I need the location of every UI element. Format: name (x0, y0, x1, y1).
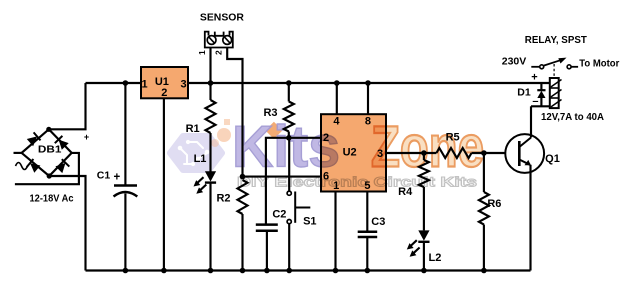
capacitor C1 (114, 83, 138, 271)
LED L2 (407, 230, 430, 270)
LED L1 (194, 171, 217, 270)
svg-text:4: 4 (333, 116, 340, 128)
wire bridge positive output to top rail (49, 83, 86, 129)
wire U2 pin 8 to rail (367, 83, 369, 114)
wire coil bottom to Q1 collector (531, 105, 550, 107)
label - (relay coil) (532, 96, 538, 108)
wire U2 pin 3 output to R5 (386, 152, 436, 154)
wire U1 pin 2 to ground rail (163, 98, 165, 270)
capacitor C2 (256, 225, 278, 271)
junction C3/ground rail (365, 268, 371, 274)
wire node to U2 pin 2 (with corner down to C2) (266, 138, 321, 225)
switch S1 (push button) (287, 138, 310, 271)
label To Motor (579, 58, 619, 70)
sensor terminal block (205, 32, 233, 48)
resistor R6 (479, 153, 489, 271)
label C2 (272, 209, 286, 221)
svg-text:+: + (531, 72, 537, 84)
svg-text:R4: R4 (398, 186, 413, 198)
svg-text:1: 1 (333, 180, 339, 192)
relay coil (550, 78, 562, 108)
svg-text:R2: R2 (216, 193, 230, 205)
wire U2 pin 5 to C3 (366, 192, 368, 232)
label 230V (502, 56, 527, 68)
resistor R4 (419, 153, 429, 230)
svg-text:To Motor: To Motor (579, 58, 619, 70)
junction R3/top rail (286, 80, 292, 86)
junction C1/top rail (123, 80, 129, 86)
svg-text:L2: L2 (428, 252, 441, 264)
resistor R1 (206, 83, 216, 172)
svg-text:SENSOR: SENSOR (200, 12, 244, 24)
junction R1-sensor1/top rail (208, 80, 214, 86)
label R4 (398, 186, 413, 198)
svg-text:C2: C2 (272, 209, 286, 221)
label L1 (194, 153, 207, 165)
node threshold (pin6/sensor2/R2) (240, 174, 246, 180)
svg-text:U2: U2 (343, 146, 357, 158)
junction L2/ground rail (421, 268, 427, 274)
label SENSOR (200, 12, 244, 24)
svg-text:6: 6 (323, 170, 329, 182)
regulator U1 body (141, 67, 188, 98)
decorative watermark (not labelled further) (170, 115, 484, 191)
wire node to U2 pin 6 (243, 176, 322, 178)
junction U2 pin8/top rail (365, 80, 371, 86)
svg-text:Q1: Q1 (545, 153, 560, 165)
timer U2 labels (323, 116, 383, 192)
wire AC input stub 1 (14, 152, 22, 154)
wire top positive rail (left of U1) (86, 82, 142, 84)
svg-text:3: 3 (377, 148, 383, 160)
junction R6/output wire (481, 150, 487, 156)
relay switch contacts (531, 58, 578, 69)
label R2 (216, 193, 230, 205)
label D1 (517, 87, 531, 99)
junction S1/ground rail (286, 268, 292, 274)
AC sine symbol (16, 163, 28, 170)
svg-text:RELAY, SPST: RELAY, SPST (525, 34, 588, 46)
label R1 (186, 123, 200, 135)
wire R5 to Q1 base (472, 152, 520, 154)
diode D1 (flyback) (537, 83, 545, 106)
op-amp/regulator U1 labels and pins (142, 76, 187, 99)
svg-text:D1: D1 (517, 87, 531, 99)
transistor Q1 (505, 106, 544, 270)
capacitor C3 (358, 232, 378, 271)
svg-text:2: 2 (323, 132, 329, 144)
junction R6/ground rail (481, 268, 487, 274)
node trigger (pin2/R3/C2/S1) (286, 135, 292, 141)
timer U2 body (321, 114, 386, 191)
sensor pin 2 label (214, 50, 224, 55)
resistor R3 (284, 83, 294, 138)
svg-text:+: + (84, 132, 89, 142)
svg-text:C3: C3 (371, 216, 385, 228)
wire bridge negative output to bottom rail (49, 176, 85, 271)
label + (relay coil) (531, 72, 537, 84)
svg-text:3: 3 (181, 79, 187, 91)
label 12-18V Ac (30, 193, 74, 205)
bridge rectifier DB1 (22, 127, 72, 179)
svg-text:+: + (113, 172, 120, 184)
wire sensor pin 1 to rail (209, 48, 211, 84)
label C3 (371, 216, 385, 228)
wire top positive rail (U1 output to relay) (188, 82, 550, 84)
label + (bridge output polarity) (84, 132, 89, 142)
svg-text:230V: 230V (502, 56, 527, 68)
svg-text:R6: R6 (487, 198, 501, 210)
label S1 (303, 216, 316, 228)
wire AC input 2 (left stub, lower) (15, 153, 79, 184)
wire sensor pin 2 down to node (crosses rail) (227, 48, 242, 177)
svg-text:DB1: DB1 (38, 144, 62, 155)
svg-text:12V,7A to 40A: 12V,7A to 40A (541, 112, 604, 123)
label RELAY, SPST (525, 34, 588, 46)
junction L1/ground rail (208, 268, 214, 274)
svg-text:R1: R1 (186, 123, 200, 135)
resistor R2 (238, 180, 248, 271)
svg-text:12-18V Ac: 12-18V Ac (30, 193, 74, 205)
label C1 + (97, 170, 121, 184)
svg-text:8: 8 (365, 116, 371, 128)
junction U1 pin2/ground rail (161, 268, 167, 274)
svg-text:2: 2 (161, 87, 167, 99)
svg-text:L1: L1 (194, 153, 207, 165)
resistor R5 (436, 148, 471, 158)
svg-text:5: 5 (364, 180, 370, 192)
svg-text:R5: R5 (446, 132, 460, 144)
junction R2/ground rail (240, 268, 246, 274)
sensor pin 1 label (197, 50, 207, 55)
junction R4/output wire (421, 150, 427, 156)
svg-text:C1: C1 (97, 170, 111, 182)
wire U2 pin 1 to ground rail (334, 192, 336, 271)
junction U2 pin1/ground rail (333, 268, 339, 274)
junction C2/ground rail (264, 268, 270, 274)
label R6 (487, 198, 501, 210)
label Q1 (545, 153, 560, 165)
label DB1 (38, 144, 62, 155)
svg-text:R3: R3 (263, 107, 277, 119)
svg-text:1: 1 (197, 50, 207, 55)
svg-text:S1: S1 (303, 216, 316, 228)
label 12V,7A to 40A (541, 112, 604, 123)
wire bottom ground rail (86, 269, 531, 271)
junction U2 pin4/top rail (334, 80, 340, 86)
label R5 (446, 132, 460, 144)
dashed actuation link (553, 64, 555, 78)
junction C1/ground rail (123, 268, 129, 274)
label L2 (428, 252, 441, 264)
label R3 (263, 107, 277, 119)
svg-text:1: 1 (142, 79, 148, 91)
wire U2 pin 4 to rail (336, 83, 338, 114)
svg-text:2: 2 (214, 50, 224, 55)
